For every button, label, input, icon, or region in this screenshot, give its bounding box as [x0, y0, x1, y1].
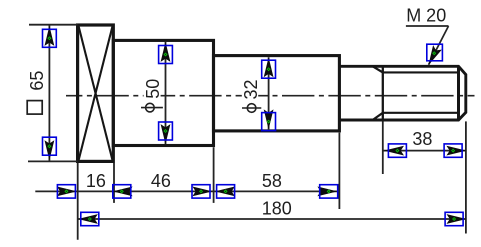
svg-text:65: 65 [27, 71, 47, 91]
svg-text:180: 180 [262, 199, 292, 219]
svg-text:16: 16 [86, 171, 106, 191]
svg-text:58: 58 [262, 171, 282, 191]
svg-text:32: 32 [241, 79, 261, 99]
svg-text:46: 46 [151, 171, 171, 191]
svg-text:38: 38 [412, 129, 432, 149]
svg-text:M 20: M 20 [406, 5, 446, 25]
svg-text:50: 50 [143, 79, 163, 99]
